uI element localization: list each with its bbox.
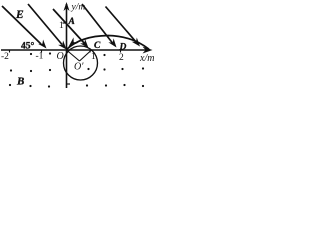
svg-text:A: A [68,17,75,27]
field line L3 through A [53,9,85,44]
svg-text:2: 2 [119,53,124,63]
svg-text:1: 1 [91,52,96,62]
field line L4 [82,4,113,43]
svg-text:B: B [16,76,24,88]
B field dots row 2 [9,84,11,86]
svg-text:C: C [94,41,101,51]
x-axis tick x=1 [89,50,91,53]
field line L5 arrowhead [132,38,140,47]
svg-text:E: E [15,9,24,21]
svg-text:O′: O′ [74,62,84,73]
field line L1 [2,6,41,44]
field line L4 arrowhead [108,38,116,47]
B field dots row 1 [10,69,12,71]
x-axis arrowhead [143,47,153,54]
radius O'O [67,50,80,61]
x-axis tick x=2 [120,50,122,53]
field line L2 [28,4,62,45]
svg-text:-2: -2 [1,52,9,62]
svg-text:45°: 45° [21,41,35,52]
svg-text:-1: -1 [36,52,44,62]
B field dots row 0 [30,53,32,55]
trajectory arrowhead into O [69,37,79,46]
field line L2 arrowhead [58,41,66,50]
svg-text:1: 1 [59,21,64,31]
svg-text:O: O [57,51,64,62]
svg-text:D: D [119,43,127,53]
field line L5 [106,7,137,43]
field line L1 arrowhead [38,40,46,49]
y-axis arrowhead [64,2,70,11]
field line L3 arrowhead [80,39,88,48]
svg-text:y/m: y/m [71,3,86,13]
x-axis [1,49,148,51]
y-axis [66,4,68,88]
circle trajectory in B region [64,46,98,80]
y-axis tick y=-1 [66,83,70,85]
trajectory dome from O to x-axis tip [67,36,150,50]
x-axis tick x=-2 [9,50,11,53]
x-axis tick x=-1 [41,50,43,53]
radius O'C [80,50,92,61]
svg-text:x/m: x/m [139,53,154,64]
y-axis tick y=1 [63,22,67,24]
